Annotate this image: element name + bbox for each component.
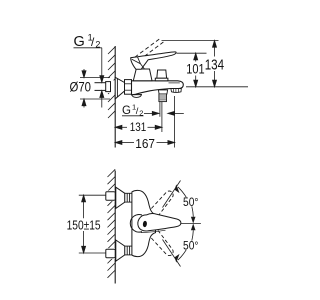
svg-text:101: 101 [186, 62, 204, 77]
svg-text:50°: 50° [183, 241, 199, 253]
cartridge dome arc (front) [130, 215, 142, 233]
wall nut top (front) [106, 192, 115, 200]
lever (front) [138, 214, 181, 231]
aerator (side) [171, 89, 181, 93]
under-lever contour [141, 230, 166, 232]
button [142, 221, 147, 228]
spout seam line [169, 82, 180, 84]
dashed raised lever (side) [135, 38, 164, 60]
svg-text:50°: 50° [183, 197, 199, 209]
svg-text:Ø70: Ø70 [70, 80, 92, 95]
under-body boss [132, 95, 142, 98]
wall hatching top view [108, 47, 115, 118]
extension lines below nipple [159, 102, 161, 117]
body (front) [132, 190, 156, 256]
svg-text:134: 134 [205, 57, 224, 73]
wall hatching front view [108, 169, 116, 277]
inlet pipe in wall [95, 82, 111, 92]
wall nut bottom (front) [106, 249, 115, 257]
extension lines 150 [79, 194, 106, 196]
dimension 131 [115, 125, 162, 129]
cartridge escutcheon [133, 69, 152, 81]
extension line spout tip [174, 96, 176, 148]
leader G1/2 top [74, 48, 104, 108]
svg-text:131: 131 [130, 120, 147, 134]
swing arc top [178, 187, 186, 197]
lever (side) [131, 52, 176, 69]
angle extension line down [163, 240, 181, 267]
escutcheon cone bottom (front) [116, 240, 125, 261]
extension line bottom ref [186, 86, 248, 88]
dimension 150+-15 [82, 195, 86, 253]
angle extension line up [163, 181, 181, 208]
extension line top (134) [162, 40, 219, 42]
dimension 167 [115, 141, 174, 145]
union nut (side) [125, 80, 132, 95]
escutcheon cone (side) [115, 77, 124, 99]
diverter knob (side) [157, 70, 167, 78]
shower outlet nipple [158, 90, 167, 94]
dimension 101 [194, 53, 198, 87]
leader G1/2 bottom [144, 111, 184, 115]
lever axis extension (front) [181, 223, 201, 225]
svg-text:150±15: 150±15 [67, 218, 101, 233]
label G1/2 bottom [122, 103, 143, 118]
union rings bottom (front) [125, 246, 132, 255]
svg-text:G: G [122, 105, 131, 117]
escutcheon cone top (front) [116, 187, 125, 208]
label G1/2 top [74, 33, 101, 51]
wall [114, 46, 116, 148]
dashed lever up (front) [146, 191, 173, 221]
dimension D70 [80, 69, 110, 108]
union rings top (front) [125, 193, 132, 202]
extension line mid (101) [177, 52, 207, 54]
body (side) [132, 81, 184, 95]
svg-text:167: 167 [135, 136, 155, 151]
wall front [114, 171, 116, 284]
swing arc bottom [178, 250, 186, 260]
dimension 134 [213, 41, 217, 87]
dashed lever down (front) [146, 226, 173, 256]
